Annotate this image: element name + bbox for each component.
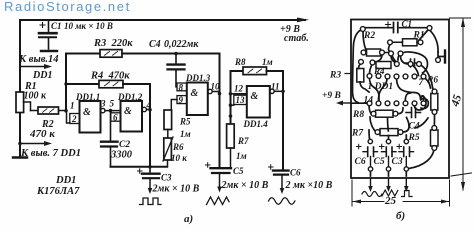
node rail arrowhead (297, 18, 309, 23)
resistor R3 on PCB (357, 69, 364, 83)
node PCB triangle symbol (382, 190, 398, 196)
capacitor C5 on PCB (374, 144, 397, 167)
svg-text:С5: С5 (233, 166, 244, 176)
svg-text:R5: R5 (408, 133, 420, 143)
op-amp gate DD1.3 (177, 73, 220, 115)
node dimension 45 (449, 18, 471, 192)
node square wave symbol (140, 198, 162, 205)
capacitor C1 on PCB (365, 19, 428, 33)
ground bottom bar (13, 156, 27, 158)
capacitor C2 (101, 111, 133, 167)
resistor R4 (66, 71, 150, 88)
svg-text:R7: R7 (237, 136, 249, 146)
capacitor C3 on PCB (392, 144, 414, 167)
svg-text:С6: С6 (355, 157, 366, 167)
capacitor C2 on PCB (405, 59, 420, 67)
svg-text:470 к: 470 к (29, 128, 55, 140)
node PCB board outline (351, 20, 449, 179)
node triangle wave symbol (207, 197, 230, 205)
svg-text:45: 45 (449, 93, 464, 109)
svg-text:С1: С1 (402, 19, 413, 29)
capacitor C6 electrolytic (269, 165, 333, 194)
svg-text:С3: С3 (392, 157, 403, 167)
svg-text:10 к: 10 к (171, 153, 187, 163)
resistor R1 (16, 81, 47, 113)
svg-text:12: 12 (234, 84, 244, 94)
svg-text:&: & (191, 88, 199, 99)
wire input node vertical x66 (65, 54, 67, 112)
wire C2 bottom to C3 node (111, 166, 168, 168)
wire pin10 node vertical x219.5 (219, 54, 221, 169)
wire PCB loop traces (398, 52, 428, 109)
svg-text:R8: R8 (352, 110, 364, 120)
capacitor C4 (149, 39, 199, 87)
resistor R7 on PCB (376, 129, 402, 136)
svg-text:4: 4 (146, 100, 152, 110)
svg-text:&: & (124, 106, 132, 117)
svg-text:К176ЛА7: К176ЛА7 (36, 186, 80, 197)
svg-text:1м: 1м (180, 129, 191, 139)
resistor R8 (231, 57, 284, 94)
resistor R4 on PCB (373, 62, 391, 77)
capacitor C3 electrolytic (138, 167, 200, 195)
svg-text:5: 5 (110, 99, 115, 109)
svg-text:К выв.14: К выв.14 (18, 54, 59, 65)
op-amp gate DD1.4 (231, 82, 284, 130)
svg-text:стаб.: стаб. (284, 33, 309, 44)
resistor R5 on PCB (431, 130, 439, 146)
svg-text:RadioStorage.net: RadioStorage.net (4, 0, 131, 14)
svg-text:13: 13 (236, 95, 246, 105)
svg-text:10 мк × 10 В: 10 мк × 10 В (64, 21, 113, 31)
svg-text:R6: R6 (172, 142, 184, 152)
wire PCB traces (351, 30, 445, 176)
svg-text:R5: R5 (179, 117, 191, 127)
wire pins12-13 node vertical x230.5 (230, 71, 232, 124)
svg-text:1: 1 (70, 101, 75, 111)
node PCB square symbol (402, 191, 413, 197)
svg-text:R2: R2 (363, 31, 375, 41)
wire to pin2 (67, 111, 71, 123)
svg-text:К выв. 7 DD1: К выв. 7 DD1 (20, 148, 81, 159)
capacitor C1 (39, 20, 113, 51)
svg-text:R7: R7 (351, 129, 364, 139)
svg-text:&: & (251, 91, 259, 102)
svg-text:R8: R8 (234, 57, 246, 67)
svg-text:С4: С4 (149, 39, 161, 50)
op-amp gate DD1.2 (111, 92, 152, 132)
resistor R5 (164, 110, 191, 139)
resistor R6 trimmer (163, 137, 187, 167)
svg-text:С3: С3 (161, 173, 172, 183)
wire pin11 node vertical x283 (282, 91, 284, 170)
svg-text:0,022мк: 0,022мк (164, 39, 199, 50)
node dimension 25 (352, 180, 450, 207)
capacitor C4 on PCB (406, 108, 421, 132)
svg-text:R3: R3 (329, 71, 341, 81)
resistor R7 (227, 124, 249, 168)
svg-text:С1: С1 (51, 21, 62, 31)
op-amp gate DD1.1 (70, 92, 105, 133)
svg-text:1м: 1м (262, 57, 273, 67)
svg-text:б): б) (396, 210, 405, 222)
svg-text:R3 220к: R3 220к (93, 38, 133, 49)
svg-text:DD1.4: DD1.4 (243, 119, 269, 129)
svg-text:100 к: 100 к (24, 91, 48, 102)
svg-text:С2: С2 (119, 140, 130, 150)
svg-text:2мк × 10 В: 2мк × 10 В (152, 184, 200, 195)
wire left vertical bus (19, 20, 21, 157)
wire pin9 to R5 (171, 100, 177, 111)
svg-text:а): а) (184, 213, 193, 225)
node K vyv.7 DD1 (18, 141, 81, 159)
svg-text:DD1: DD1 (32, 70, 52, 81)
svg-text:2мк × 10 В: 2мк × 10 В (221, 180, 269, 191)
svg-text:3: 3 (100, 99, 106, 109)
resistor R1 on PCB (392, 39, 419, 46)
resistor R2 on PCB (364, 49, 390, 56)
svg-text:1м: 1м (236, 151, 247, 161)
svg-text:9: 9 (179, 95, 184, 105)
svg-text:2: 2 (71, 114, 77, 124)
svg-text:3300: 3300 (110, 150, 133, 161)
svg-text:DD1: DD1 (55, 175, 76, 186)
wire feedback vertical x150 (149, 84, 151, 167)
svg-text:2 мк ×10 В: 2 мк ×10 В (285, 180, 333, 191)
capacitor C5 electrolytic (206, 163, 269, 193)
wire pin3 to pin5 (105, 110, 121, 112)
resistor R8 on PCB (371, 110, 397, 117)
svg-text:&: & (83, 107, 91, 118)
node PCB output arrows (368, 179, 408, 193)
capacitor C6 on PCB (355, 144, 378, 167)
resistor R3 (66, 38, 220, 57)
node PCB pads (359, 26, 441, 172)
node sine wave symbol (269, 198, 295, 205)
svg-text:6: 6 (113, 113, 118, 123)
node K vyv.14 DD1 (18, 54, 59, 81)
svg-text:С6: С6 (290, 168, 301, 178)
svg-text:11: 11 (271, 82, 280, 92)
svg-text:8: 8 (179, 83, 184, 93)
svg-text:+9 В: +9 В (322, 91, 341, 101)
resistor R6 on PCB (431, 94, 438, 111)
wire +9V top rail (21, 19, 305, 21)
resistor R2 (29, 107, 66, 140)
node PCB sine symbol (362, 192, 382, 197)
svg-text:С5: С5 (374, 157, 385, 167)
